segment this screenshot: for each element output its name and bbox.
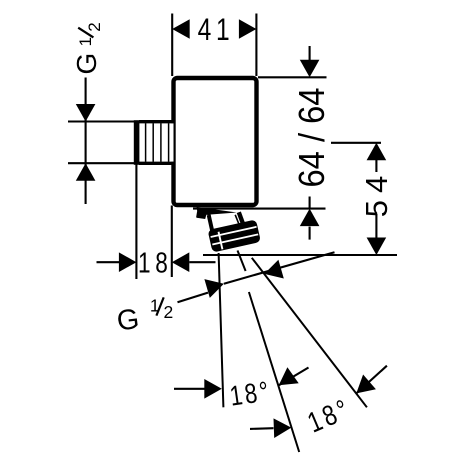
svg-text:18°: 18° bbox=[228, 376, 273, 412]
extension line 18 right (from plate left bottom) bbox=[171, 206, 173, 278]
swivel line L2 (36 deg) bbox=[252, 258, 367, 408]
svg-text:G: G bbox=[115, 303, 141, 337]
angle dim 18deg #1: arrow at L1 bbox=[279, 368, 309, 386]
pivoting hose outlet nozzle below plate bbox=[196, 207, 261, 253]
slanted dimension line D across cone bbox=[224, 252, 335, 284]
arrow down at thread top bbox=[76, 104, 96, 122]
neck left edge bbox=[209, 215, 214, 237]
extension line plate bottom right (long, passes under nozzle) bbox=[193, 208, 326, 210]
G1/2 leader line bbox=[178, 293, 209, 303]
label G 1/2 rotated (left) bbox=[71, 22, 104, 74]
arrow left (41) bbox=[172, 19, 190, 39]
tail + arrow left at 18 right bbox=[189, 261, 215, 263]
long bottom reference line bbox=[203, 254, 397, 256]
extension line plate top right bbox=[258, 76, 327, 78]
svg-text:41: 41 bbox=[198, 11, 235, 47]
angle dim 18deg #2: arrow right at L1 bbox=[250, 427, 274, 430]
extension line 41 right bbox=[255, 14, 257, 77]
angle dim 18deg #2: arrow at L2 bbox=[356, 366, 387, 394]
dim line 64/64 with outside arrows bbox=[309, 46, 311, 61]
swivel line L1 (18 deg) upper seg bbox=[238, 251, 246, 272]
arrow right (41) bbox=[239, 19, 257, 39]
extension line thread axis (right) bbox=[331, 142, 381, 144]
svg-text:2: 2 bbox=[164, 302, 174, 322]
svg-text:2: 2 bbox=[85, 22, 104, 31]
neck inner line bbox=[235, 215, 241, 231]
extension line 41 left bbox=[171, 14, 173, 77]
leader arrow to hose connection bbox=[204, 279, 224, 298]
arrow at L2 on dim line D bbox=[264, 260, 284, 279]
arrow up at thread bottom bbox=[76, 163, 96, 181]
extension line top of thread bbox=[68, 120, 134, 122]
svg-text:18: 18 bbox=[138, 246, 173, 279]
angle dim 18deg #1: arrow right at V bbox=[174, 388, 205, 390]
svg-text:1: 1 bbox=[76, 37, 95, 46]
dimension line vertical left bbox=[85, 78, 87, 205]
tail + arrow right at 18 left bbox=[97, 261, 120, 263]
dim line 54 bbox=[367, 143, 387, 161]
neck right edge bbox=[239, 212, 246, 231]
wall plate escutcheon (rounded rectangle body) bbox=[174, 78, 257, 205]
extension line bottom of thread bbox=[68, 162, 134, 164]
label G 1/2 (hose thread) bbox=[115, 295, 173, 337]
extension line 18 left (from thread bottom) bbox=[135, 165, 137, 280]
threaded inlet connector G1/2 on left bbox=[134, 120, 174, 165]
vertical reference line from pivot bbox=[219, 253, 224, 407]
svg-text:64 / 64: 64 / 64 bbox=[291, 88, 332, 188]
svg-text:G: G bbox=[71, 53, 102, 75]
svg-text:54: 54 bbox=[359, 169, 394, 217]
swivel line L1 (18 deg) lower seg bbox=[249, 292, 299, 452]
